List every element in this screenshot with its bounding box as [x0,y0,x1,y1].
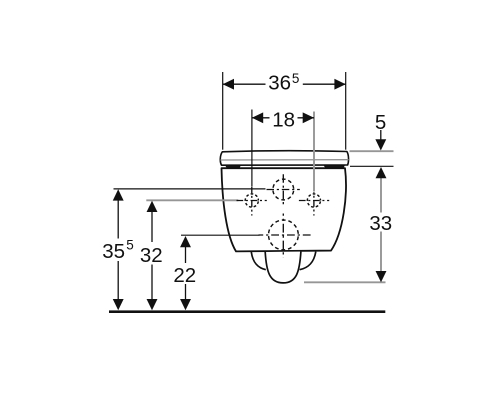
toilet lid (seat cover, front view) [220,151,348,165]
extension line 36.5 right [345,72,347,150]
upper mounting hole (dashed circle) [267,174,300,206]
outlet inner U pipe [265,252,301,283]
svg-text:5: 5 [126,237,134,252]
extension line 18 left (black) [251,110,253,187]
dimension line 22 [180,236,191,310]
dimension line 33 (gray shaft, black arrows) [376,167,387,282]
dimension line 32 [147,201,158,311]
dimension line 36.5 [223,79,346,90]
extension line 33 bottom (gray, outlet underside) [304,281,386,283]
extension line lid top right (gray, for dim 5) [350,150,394,152]
right seat bumper [324,166,344,169]
dimension line 18 [252,112,314,123]
extension line 22 (to large hole centre) [181,234,260,236]
outlet outer left flare [251,252,266,270]
small fixing hole right [299,192,329,215]
dimension line 35.5 [113,189,124,310]
small fixing hole left [236,187,266,216]
extension line 18 right (gray) [313,112,315,192]
svg-text:5: 5 [292,71,300,86]
dimension 5 (leader with down arrow) [375,130,386,151]
svg-text:22: 22 [173,264,196,287]
extension line 35.5 (to upper hole centre) [114,188,266,190]
svg-text:36: 36 [268,71,291,94]
svg-text:35: 35 [102,240,125,263]
svg-text:33: 33 [369,212,392,235]
extension line body top right (black, for dims 5 and 33) [350,165,394,167]
outlet outer right flare [300,252,316,270]
svg-text:32: 32 [140,244,163,267]
toilet bowl body [221,168,345,251]
extension line 32 (gray, to small holes) [146,199,238,201]
extension line 36.5 left [222,72,224,150]
floor line [109,310,385,313]
lid/seat seam line [220,159,348,161]
svg-text:18: 18 [272,108,295,131]
large outlet hole (dashed circle) [258,214,313,258]
svg-text:5: 5 [375,111,386,134]
left seat bumper [226,165,240,168]
